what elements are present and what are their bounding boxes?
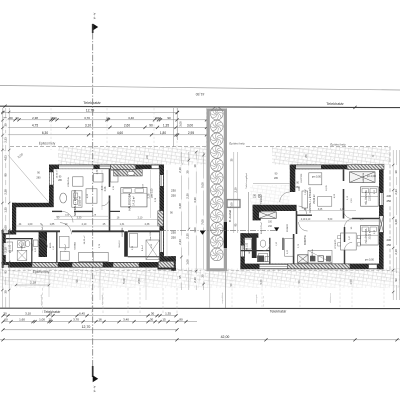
svg-text:60: 60 — [4, 318, 8, 322]
svg-text:3,40: 3,40 — [128, 116, 134, 120]
svg-text:csapadékvíz: csapadékvíz — [222, 292, 224, 303]
svg-text:16,05 m²: 16,05 m² — [56, 169, 59, 178]
svg-text:4,70 m²: 4,70 m² — [31, 243, 34, 251]
flue block — [39, 232, 47, 257]
svg-text:230: 230 — [171, 230, 176, 234]
svg-text:4,03: 4,03 — [4, 155, 8, 161]
svg-text:elektromos: elektromos — [329, 293, 332, 303]
dining table — [341, 233, 357, 250]
svg-text:10: 10 — [106, 116, 110, 120]
svg-text:90: 90 — [4, 173, 8, 176]
svg-text:2,10: 2,10 — [234, 187, 238, 193]
right building interior partitions — [296, 211, 298, 234]
svg-text:90: 90 — [149, 124, 153, 128]
svg-text:B.ló 2,76 m²: B.ló 2,76 m² — [260, 222, 263, 234]
svg-text:3,00: 3,00 — [4, 225, 8, 231]
svg-text:1,85: 1,85 — [50, 223, 55, 226]
svg-text:2,50: 2,50 — [350, 279, 353, 284]
svg-text:Telekhatár: Telekhatár — [270, 310, 287, 314]
svg-text:1,40: 1,40 — [340, 209, 345, 211]
svg-text:30: 30 — [150, 318, 154, 322]
svg-text:10,02 m²: 10,02 m² — [369, 230, 372, 239]
svg-text:3,00: 3,00 — [187, 124, 193, 128]
dimension 42,00 — [0, 339, 400, 341]
svg-text:90: 90 — [167, 116, 171, 120]
kitchen counter bottom — [308, 250, 332, 263]
paving band below buildings — [0, 269, 400, 282]
svg-text:12,01 m²: 12,01 m² — [369, 192, 372, 201]
svg-text:5,00: 5,00 — [122, 278, 126, 284]
svg-text:5,6 m²: 5,6 m² — [304, 189, 307, 195]
svg-text:14,05 m²: 14,05 m² — [83, 235, 86, 244]
svg-text:2,10: 2,10 — [394, 249, 398, 255]
door arcs right building — [299, 206, 307, 214]
svg-text:250: 250 — [387, 199, 392, 203]
svg-text:3,10: 3,10 — [85, 124, 91, 128]
svg-text:1,35: 1,35 — [165, 312, 171, 316]
svg-text:2,33: 2,33 — [394, 189, 398, 195]
svg-text:ELŐTÉR: ELŐTÉR — [300, 173, 303, 182]
right edge dimension column — [392, 150, 394, 300]
svg-text:250: 250 — [171, 235, 176, 239]
section cut through strip — [160, 229, 278, 231]
svg-text:280: 280 — [274, 177, 279, 180]
svg-text:NAPPALI + ÉTKEZŐ: NAPPALI + ÉTKEZŐ — [72, 189, 77, 216]
svg-text:230: 230 — [387, 238, 392, 242]
svg-text:A - A: A - A — [93, 386, 97, 393]
svg-text:pm 0,00: pm 0,00 — [312, 175, 322, 178]
svg-text:2,10: 2,10 — [306, 219, 311, 221]
svg-text:280: 280 — [36, 176, 41, 179]
svg-text:250: 250 — [387, 243, 392, 247]
strip continuation lines below — [209, 271, 211, 308]
svg-text:30: 30 — [4, 290, 8, 293]
svg-text:3,28: 3,28 — [394, 219, 398, 225]
svg-text:Telekhatár: Telekhatár — [326, 102, 344, 106]
svg-text:90x2,10: 90x2,10 — [119, 240, 121, 248]
svg-text:2,50: 2,50 — [137, 278, 141, 284]
left building exterior walls — [49, 165, 164, 170]
svg-text:2,30: 2,30 — [97, 169, 99, 174]
svg-text:250: 250 — [171, 193, 176, 197]
svg-text:30: 30 — [3, 312, 7, 316]
svg-text:16,05: 16,05 — [326, 184, 328, 190]
wall block right of hall — [158, 211, 164, 226]
gate between strip and terrace — [227, 200, 240, 208]
bath fixtures — [285, 238, 294, 256]
svg-text:1,80: 1,80 — [160, 131, 166, 135]
svg-text:WC: WC — [249, 250, 251, 254]
svg-text:KÖZL.: KÖZL. — [49, 241, 52, 248]
svg-text:pm 0,00: pm 0,00 — [365, 258, 375, 261]
svg-text:2,35: 2,35 — [186, 233, 190, 239]
svg-text:230: 230 — [253, 193, 256, 198]
property line (Telekhatar) bottom — [0, 307, 400, 309]
svg-text:2,30: 2,30 — [186, 193, 190, 199]
extension line next to right wall — [166, 170, 168, 258]
svg-text:pm 0,00: pm 0,00 — [151, 188, 154, 197]
svg-text:2,38: 2,38 — [145, 223, 150, 226]
bottom dimension chains — [3, 315, 177, 317]
svg-text:25,60 m²: 25,60 m² — [313, 194, 316, 204]
svg-text:2,10: 2,10 — [82, 223, 87, 226]
svg-text:250: 250 — [258, 193, 261, 198]
svg-text:3,00: 3,00 — [179, 121, 183, 127]
dim column left of strip — [180, 152, 182, 290]
svg-text:3,25: 3,25 — [318, 209, 323, 211]
svg-text:KONYHA: KONYHA — [67, 177, 70, 187]
svg-text:30: 30 — [4, 123, 8, 126]
svg-text:10: 10 — [48, 318, 52, 322]
svg-text:FÜRDŐ: FÜRDŐ — [21, 242, 24, 250]
svg-text:7,49 m²: 7,49 m² — [64, 244, 67, 252]
property line (Telekhatar) top — [0, 106, 400, 107]
svg-text:14,10 m²: 14,10 m² — [133, 196, 136, 206]
svg-text:3,47: 3,47 — [360, 219, 365, 221]
paving band above right building — [272, 147, 390, 165]
dimension 12,70 — [3, 329, 177, 331]
svg-text:2,33: 2,33 — [4, 137, 8, 143]
svg-text:8,4 m²: 8,4 m² — [141, 245, 144, 251]
porch hatched block — [159, 262, 175, 269]
svg-text:pm 1,93: pm 1,93 — [247, 242, 249, 251]
svg-text:FÜRDŐ: FÜRDŐ — [286, 224, 289, 232]
svg-text:2,95: 2,95 — [188, 131, 194, 135]
svg-text:2,10: 2,10 — [178, 167, 182, 173]
door arcs — [62, 211, 73, 222]
dim column right of strip — [233, 152, 235, 233]
sofa living room — [302, 191, 308, 208]
svg-text:GARDRÓB: GARDRÓB — [362, 172, 365, 183]
left edge dimension column — [1, 108, 3, 308]
svg-text:5,00: 5,00 — [260, 279, 263, 284]
small sanitary fixtures lower-left — [18, 241, 25, 248]
window markers right wall — [385, 194, 394, 205]
svg-text:2,38: 2,38 — [32, 116, 38, 120]
bed room1 — [121, 188, 147, 207]
svg-text:16: 16 — [49, 312, 53, 316]
svg-text:15: 15 — [158, 116, 162, 120]
svg-text:30: 30 — [53, 116, 57, 120]
svg-text:12,70: 12,70 — [82, 325, 91, 329]
svg-text:Építési hely: Építési hely — [330, 141, 346, 146]
svg-text:vízvezeték: vízvezeték — [101, 294, 104, 305]
svg-text:2,33: 2,33 — [178, 239, 182, 245]
svg-text:Szm 0,00: Szm 0,00 — [150, 231, 152, 241]
svg-text:ELŐTÉR: ELŐTÉR — [121, 227, 124, 236]
svg-text:A - A: A - A — [93, 13, 97, 20]
svg-text:41,50: 41,50 — [196, 92, 205, 96]
wardrobe — [111, 171, 119, 183]
svg-text:16: 16 — [98, 318, 102, 322]
svg-text:5,00: 5,00 — [200, 182, 204, 188]
svg-text:9,0x2,10: 9,0x2,10 — [42, 223, 44, 232]
svg-text:1,35: 1,35 — [4, 207, 8, 213]
paving fan circles — [211, 107, 224, 120]
hatched wall section top — [111, 165, 136, 170]
svg-text:93: 93 — [4, 270, 8, 273]
svg-text:25,60 m²: 25,60 m² — [78, 196, 82, 206]
svg-text:2,10: 2,10 — [4, 247, 8, 253]
svg-text:1,00: 1,00 — [186, 259, 190, 265]
svg-text:KONYHA: KONYHA — [311, 249, 314, 259]
svg-text:3,70: 3,70 — [73, 318, 79, 322]
window markers 230/250 left bldg — [169, 188, 178, 199]
left building furniture — [73, 177, 83, 186]
svg-text:1,00: 1,00 — [28, 223, 33, 226]
svg-text:HÁLÓSZOBA: HÁLÓSZOBA — [365, 228, 368, 243]
svg-text:30: 30 — [151, 312, 155, 316]
svg-text:93: 93 — [394, 278, 398, 281]
svg-text:HÁLÓSZOBA: HÁLÓSZOBA — [365, 190, 368, 205]
svg-text:4,03: 4,03 — [102, 185, 104, 190]
entry wall hatched — [253, 205, 297, 211]
svg-text:3,10: 3,10 — [25, 312, 31, 316]
driveway strip walls — [207, 109, 228, 272]
left building interior partitions — [109, 169, 111, 187]
svg-text:2,60: 2,60 — [124, 124, 130, 128]
svg-text:1,00: 1,00 — [193, 227, 197, 233]
svg-text:3,30: 3,30 — [193, 197, 197, 203]
svg-text:95: 95 — [178, 275, 182, 279]
svg-text:30: 30 — [15, 116, 19, 120]
strip right wall dark segment — [224, 222, 227, 248]
interior dim rows right building — [299, 210, 356, 212]
left building interior dims + labels — [101, 170, 103, 210]
paving band above left building — [58, 147, 206, 165]
svg-text:7,00: 7,00 — [230, 202, 234, 208]
svg-text:230: 230 — [387, 194, 392, 198]
svg-text:60: 60 — [9, 116, 13, 120]
svg-text:1,31: 1,31 — [120, 223, 125, 226]
svg-text:6,45: 6,45 — [79, 312, 85, 316]
svg-text:6,30: 6,30 — [42, 131, 48, 135]
svg-text:1,60: 1,60 — [19, 318, 25, 322]
svg-text:3,70: 3,70 — [84, 116, 90, 120]
svg-text:12,79: 12,79 — [86, 109, 95, 113]
svg-text:3,40: 3,40 — [123, 318, 129, 322]
svg-text:2,10: 2,10 — [138, 216, 143, 219]
svg-text:5,60: 5,60 — [328, 219, 333, 221]
svg-text:4,60: 4,60 — [117, 131, 123, 135]
fridge — [94, 174, 104, 183]
terrace hatch — [250, 185, 290, 205]
svg-text:gázvezeték: gázvezeték — [40, 294, 43, 306]
svg-text:230: 230 — [171, 188, 176, 192]
svg-text:10: 10 — [193, 164, 197, 168]
svg-text:B. Aszfalt: B. Aszfalt — [228, 210, 232, 222]
survey line 41,50 — [0, 86, 400, 91]
svg-text:3,30: 3,30 — [77, 216, 82, 219]
svg-text:42,00: 42,00 — [221, 335, 230, 339]
svg-text:Építési hely: Építési hely — [33, 269, 50, 274]
svg-text:30: 30 — [186, 170, 190, 174]
svg-text:30: 30 — [394, 170, 398, 173]
svg-text:3,28: 3,28 — [104, 186, 107, 191]
top dimension chains — [3, 112, 177, 114]
svg-text:Építési hely: Építési hely — [229, 140, 245, 145]
svg-text:ÉTKEZŐ: ÉTKEZŐ — [334, 239, 337, 248]
vertical dim 3,00 — [173, 108, 175, 147]
svg-text:1,35: 1,35 — [163, 124, 169, 128]
dim 2,18 under left building — [16, 284, 49, 286]
svg-text:SZOBA: SZOBA — [74, 242, 77, 250]
svg-text:KONYHA: KONYHA — [304, 235, 307, 245]
right building exterior walls — [290, 165, 384, 170]
svg-text:15: 15 — [162, 318, 166, 322]
svg-text:2,10: 2,10 — [193, 277, 197, 283]
svg-text:pm 0,00: pm 0,00 — [367, 175, 377, 178]
svg-text:Telekhatár: Telekhatár — [44, 310, 61, 314]
svg-text:7,00: 7,00 — [200, 219, 204, 225]
svg-text:2,38: 2,38 — [4, 189, 8, 195]
svg-text:3,28: 3,28 — [178, 203, 182, 209]
svg-text:pm 1,93: pm 1,93 — [10, 244, 12, 253]
kitchen counter hatched along top — [114, 170, 143, 176]
svg-text:Térkő szegéllyel: Térkő szegéllyel — [245, 173, 248, 189]
right building furniture — [309, 173, 322, 185]
svg-text:1,00: 1,00 — [39, 318, 45, 322]
svg-text:Építési hely: Építési hely — [39, 140, 56, 145]
svg-text:szennyvíz: szennyvíz — [256, 295, 258, 304]
svg-text:4,75: 4,75 — [32, 124, 38, 128]
svg-text:80: 80 — [179, 318, 183, 322]
svg-text:HÁLÓSZOBA: HÁLÓSZOBA — [127, 193, 132, 210]
svg-text:2,18: 2,18 — [30, 281, 36, 285]
right building window boxes (X) — [296, 165, 321, 169]
5,00 setback callout — [2, 148, 52, 206]
svg-text:30: 30 — [200, 274, 204, 278]
building envelope (Epitesi hely) — [10, 145, 206, 147]
